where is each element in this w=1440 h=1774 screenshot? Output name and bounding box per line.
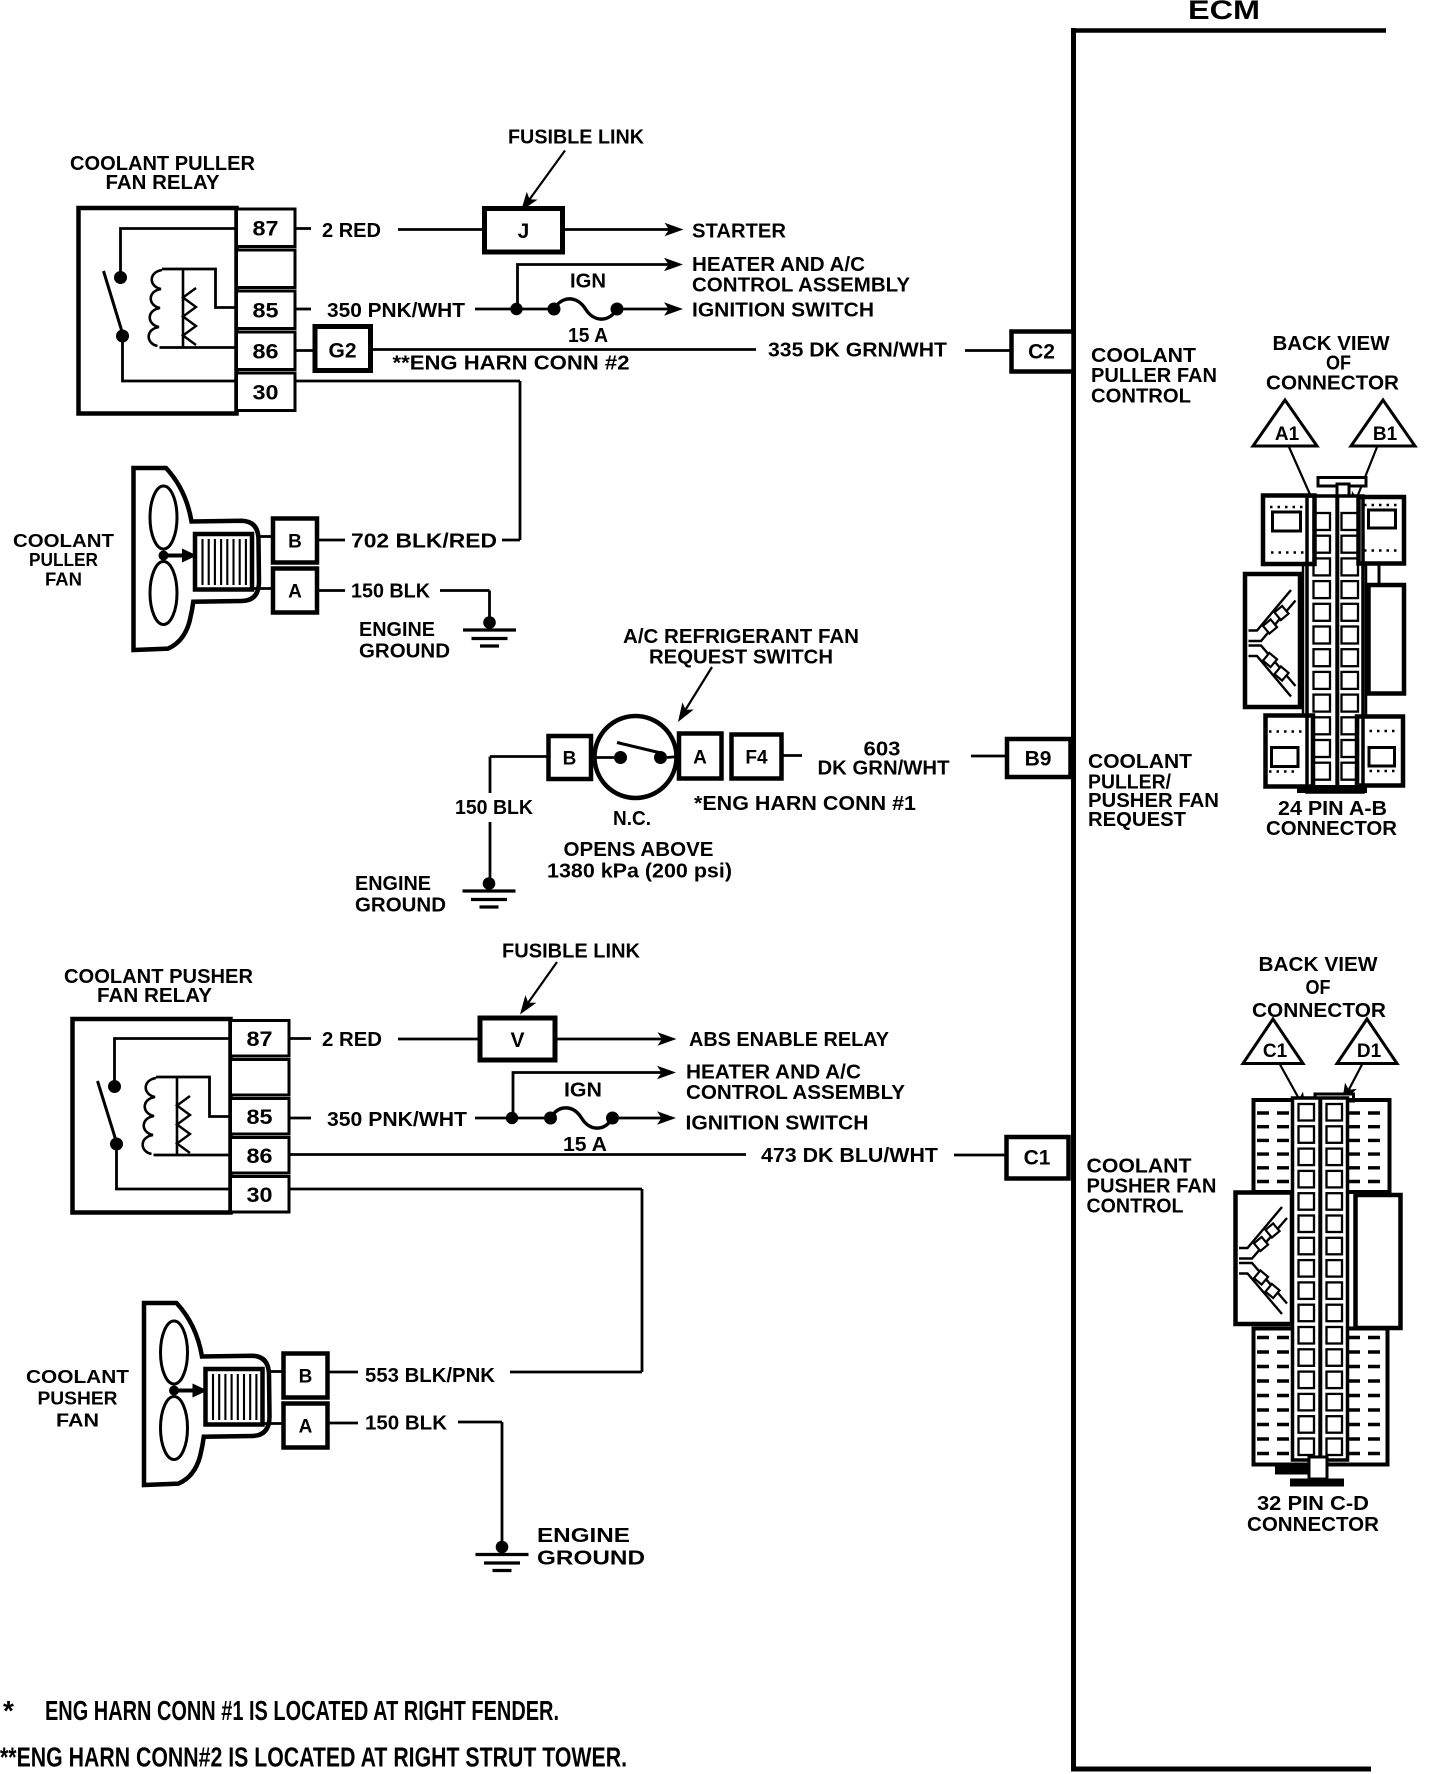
wire 350 PNK/WHT to junction: [475, 308, 517, 311]
svg-text:*ENG HARN CONN #1: *ENG HARN CONN #1: [694, 792, 916, 815]
svg-text:ENGINE: ENGINE: [359, 618, 435, 641]
svg-text:V: V: [510, 1029, 524, 1052]
leader arrow C1 to connector: [1280, 1065, 1303, 1107]
wire fuse to IGNITION SWITCH: [624, 308, 672, 311]
svg-text:B: B: [563, 749, 577, 770]
32 pin connector bottom block with seal lines: [1254, 1329, 1388, 1465]
svg-text:B: B: [288, 532, 302, 553]
svg-text:COOLANT: COOLANT: [26, 1366, 130, 1387]
fuse IGN 15 A (K2): [512, 1117, 544, 1120]
svg-text:REQUEST SWITCH: REQUEST SWITCH: [649, 646, 833, 669]
32 pin cavity row 7: [1299, 1238, 1315, 1255]
relay K1 pin 87 box: [237, 209, 296, 247]
wire switch B to ground: [490, 755, 549, 758]
leader arrow D1 to connector: [1345, 1065, 1362, 1098]
engine ground symbol (switch): [463, 877, 516, 907]
connector G2: [315, 327, 371, 371]
24 pin connector right rail: [1365, 565, 1368, 716]
svg-text:IGN: IGN: [564, 1079, 602, 1102]
relay K1 coil: [162, 269, 238, 308]
relay K1 switch contact blade: [104, 271, 122, 330]
svg-text:C2: C2: [1028, 341, 1055, 364]
wire 2 RED from K2 pin 87: [289, 1037, 311, 1040]
wire K1 pin 30 to coolant puller fan terminal B: [295, 380, 520, 383]
svg-text:A1: A1: [1275, 424, 1300, 445]
32 pin connector top block with seal lines: [1254, 1100, 1390, 1192]
wire 350 PNK/WHT from K2 pin 85: [289, 1117, 311, 1120]
relay K2 pin 85 box: [231, 1099, 290, 1135]
svg-text:150 BLK: 150 BLK: [365, 1412, 447, 1435]
relay K2 pin 86 box: [231, 1138, 290, 1174]
svg-text:IGNITION SWITCH: IGNITION SWITCH: [686, 1112, 869, 1135]
24 pin cavity row 6: [1314, 627, 1331, 644]
svg-text:A: A: [288, 582, 302, 603]
svg-text:CONNECTOR: CONNECTOR: [1266, 372, 1399, 395]
wire K2 pin 30 to coolant pusher fan terminal B: [289, 1188, 642, 1191]
svg-text:CONTROL ASSEMBLY: CONTROL ASSEMBLY: [686, 1081, 905, 1104]
pin id triangle D1: [1337, 1019, 1397, 1064]
24 pin cavity row 5: [1314, 604, 1331, 621]
24 pin cavity row 2: [1314, 536, 1331, 553]
relay K2 pin 87 box: [231, 1021, 290, 1057]
terminal B box (fan): [273, 519, 317, 563]
svg-text:F4: F4: [745, 748, 768, 769]
24 pin cavity row 1: [1314, 513, 1331, 530]
svg-text:PUSHER: PUSHER: [38, 1388, 118, 1409]
svg-text:CONTROL: CONTROL: [1091, 385, 1191, 408]
32 pin cavity row 11: [1299, 1327, 1315, 1344]
wire K1 switch to pin 87: [121, 229, 239, 278]
32 pin connector top tab: [1315, 1094, 1354, 1101]
wire fuse to IGNITION SWITCH (K2): [619, 1117, 664, 1120]
coolant pusher fan motor assembly: [144, 1303, 328, 1485]
svg-text:A: A: [693, 748, 707, 769]
24 pin connector right top block: [1359, 497, 1405, 564]
svg-text:553 BLK/PNK: 553 BLK/PNK: [365, 1364, 495, 1387]
wire K1 switch to pin 30: [123, 336, 239, 381]
wire 150 BLK from fan A: [317, 589, 345, 592]
svg-text:CONTROL ASSEMBLY: CONTROL ASSEMBLY: [692, 274, 910, 297]
svg-text:ECM: ECM: [1188, 0, 1260, 25]
32 pin cavity row 10: [1299, 1305, 1315, 1322]
wire junction to heater riser: [518, 265, 672, 310]
32 pin cavity row 15: [1299, 1416, 1315, 1433]
wire K2 pin 86 473 DK BLU/WHT: [289, 1153, 746, 1156]
svg-text:473 DK BLU/WHT: 473 DK BLU/WHT: [761, 1144, 938, 1167]
svg-text:CONNECTOR: CONNECTOR: [1247, 1513, 1379, 1536]
svg-text:86: 86: [253, 341, 279, 364]
24 pin connector bottom tab: [1297, 785, 1367, 793]
leader arrow FUSIBLE LINK to J: [524, 151, 565, 208]
svg-text:FUSIBLE LINK: FUSIBLE LINK: [508, 126, 644, 149]
pin id triangle B1: [1351, 400, 1415, 446]
svg-text:87: 87: [253, 218, 279, 241]
svg-text:GROUND: GROUND: [359, 640, 450, 663]
wire 2 RED from K1 pin 87: [295, 227, 311, 230]
svg-text:N.C.: N.C.: [613, 807, 651, 830]
junction dot at fuse: [510, 303, 522, 315]
24 pin cavity row 4: [1314, 581, 1331, 598]
coolant puller fan motor assembly: [134, 468, 318, 650]
24 pin connector central pin carrier: [1307, 496, 1363, 792]
32 pin cavity row 4: [1299, 1171, 1315, 1188]
svg-text:ENGINE: ENGINE: [537, 1524, 630, 1547]
svg-text:FAN RELAY: FAN RELAY: [97, 984, 212, 1007]
svg-text:GROUND: GROUND: [355, 894, 446, 917]
svg-text:150 BLK: 150 BLK: [455, 796, 533, 819]
svg-text:1380 kPa (200 psi): 1380 kPa (200 psi): [547, 860, 732, 883]
svg-text:FUSIBLE LINK: FUSIBLE LINK: [502, 940, 640, 963]
relay K1 pin 86 box: [237, 332, 296, 370]
wire 553 BLK/PNK from fan B: [328, 1371, 359, 1374]
svg-text:OF: OF: [1306, 976, 1331, 999]
svg-text:CONTROL: CONTROL: [1087, 1195, 1184, 1218]
svg-text:ABS ENABLE RELAY: ABS ENABLE RELAY: [689, 1028, 889, 1051]
svg-text:2 RED: 2 RED: [322, 1028, 382, 1051]
ECM boundary box top edge: [1071, 28, 1386, 33]
wire 350 PNK/WHT from K1 pin 85: [295, 308, 311, 311]
relay K2 coolant pusher fan relay outline: [73, 1019, 231, 1213]
leader arrow to switch: [681, 667, 712, 717]
svg-text:CONNECTOR: CONNECTOR: [1266, 817, 1397, 840]
svg-text:**ENG HARN CONN#2 IS LOCATED A: **ENG HARN CONN#2 IS LOCATED AT RIGHT ST…: [0, 1742, 627, 1773]
svg-text:30: 30: [247, 1184, 273, 1207]
wire 335 DK GRN/WHT: [371, 348, 757, 351]
svg-text:150 BLK: 150 BLK: [351, 580, 430, 603]
svg-text:335 DK GRN/WHT: 335 DK GRN/WHT: [768, 339, 947, 362]
svg-text:BACK VIEW: BACK VIEW: [1259, 953, 1379, 976]
24 pin cavity row 12: [1314, 763, 1331, 780]
svg-text:GROUND: GROUND: [537, 1547, 645, 1570]
ECM boundary box bottom edge: [1071, 1767, 1371, 1772]
32 pin connector bottom tab: [1275, 1465, 1309, 1475]
svg-text:OPENS ABOVE: OPENS ABOVE: [564, 838, 714, 861]
svg-text:*: *: [3, 1695, 14, 1726]
svg-text:87: 87: [247, 1028, 273, 1051]
svg-text:FAN: FAN: [45, 569, 82, 590]
relay K2 switch contact dots: [108, 1080, 121, 1093]
32 pin connector central pin carrier: [1293, 1098, 1348, 1460]
svg-text:PULLER: PULLER: [29, 549, 98, 570]
32 pin connector left middle block with key hatch: [1236, 1193, 1293, 1325]
fusible link V: [480, 1018, 555, 1060]
32 pin cavity row 3: [1299, 1149, 1315, 1166]
svg-text:85: 85: [247, 1106, 273, 1129]
wire 603 DK GRN/WHT to B9: [782, 754, 803, 757]
ECM terminal C2: [1012, 332, 1074, 372]
switch S1 contacts: [591, 756, 614, 759]
ECM terminal B9: [1007, 739, 1071, 777]
pin id triangle C1: [1243, 1019, 1303, 1064]
32 pin cavity row 1: [1299, 1104, 1315, 1121]
svg-text:DK GRN/WHT: DK GRN/WHT: [818, 757, 950, 780]
32 pin cavity row 2: [1299, 1126, 1315, 1143]
32 pin cavity row 14: [1299, 1394, 1315, 1411]
wire 2 RED to fusible link J: [398, 228, 485, 231]
wire K2 switch to pin 30: [117, 1144, 233, 1189]
24 pin connector top tab: [1318, 478, 1366, 487]
svg-text:702 BLK/RED: 702 BLK/RED: [351, 530, 497, 553]
24 pin cavity row 8: [1314, 672, 1331, 689]
relay K1 coolant puller fan relay outline: [79, 208, 237, 414]
svg-text:COOLANT: COOLANT: [13, 530, 115, 551]
svg-text:15 A: 15 A: [563, 1133, 607, 1156]
wire J to STARTER: [563, 228, 672, 231]
svg-text:2 RED: 2 RED: [322, 219, 381, 242]
svg-text:J: J: [518, 220, 530, 243]
svg-text:G2: G2: [328, 340, 356, 363]
wire K1 pin 86 to connector G2: [295, 349, 315, 352]
svg-text:86: 86: [247, 1145, 273, 1168]
relay K2 coil: [156, 1077, 232, 1117]
relay K1 pin blank box: [237, 250, 296, 288]
svg-text:REQUEST: REQUEST: [1088, 808, 1186, 831]
svg-text:30: 30: [253, 382, 279, 405]
32 pin cavity row 8: [1299, 1260, 1315, 1277]
24 pin connector right middle block: [1369, 585, 1405, 694]
32 pin cavity row 13: [1299, 1372, 1315, 1389]
svg-text:FAN RELAY: FAN RELAY: [106, 171, 220, 194]
ECM boundary box left edge: [1071, 28, 1076, 1772]
engine ground symbol (puller fan): [463, 616, 516, 646]
32 pin cavity row 5: [1299, 1193, 1315, 1210]
svg-text:C1: C1: [1024, 1147, 1051, 1170]
terminal A box (switch): [679, 734, 722, 779]
svg-text:B1: B1: [1373, 424, 1398, 445]
connector F4: [732, 735, 782, 779]
pin id triangle A1: [1253, 400, 1317, 446]
wire K2 switch to pin 87: [115, 1039, 233, 1087]
wire junction to heater riser (K2): [513, 1073, 664, 1119]
relay K1 pin 85 box: [237, 291, 296, 329]
svg-text:85: 85: [253, 300, 279, 323]
leader arrow B1 to connector: [1354, 447, 1377, 505]
24 pin cavity row 3: [1314, 558, 1331, 575]
svg-text:15 A: 15 A: [568, 324, 608, 347]
svg-text:ENGINE: ENGINE: [355, 872, 431, 895]
svg-text:B9: B9: [1025, 748, 1052, 771]
24 pin connector left top block: [1263, 496, 1315, 565]
24 pin cavity row 7: [1314, 649, 1331, 666]
24 pin cavity row 11: [1314, 740, 1331, 757]
24 pin connector right bottom block: [1357, 717, 1403, 786]
24 pin connector left rail: [1302, 565, 1305, 716]
svg-text:**ENG HARN CONN #2: **ENG HARN CONN #2: [393, 352, 630, 375]
svg-text:350 PNK/WHT: 350 PNK/WHT: [327, 1108, 467, 1131]
24 pin connector left middle block with key hatch: [1245, 574, 1300, 707]
svg-text:C1: C1: [1263, 1041, 1288, 1062]
wire 702 BLK/RED: [317, 539, 345, 542]
ECM terminal C1: [1007, 1137, 1069, 1179]
svg-text:ENG HARN CONN #1 IS LOCATED AT: ENG HARN CONN #1 IS LOCATED AT RIGHT FEN…: [45, 1695, 559, 1726]
32 pin connector right middle block: [1356, 1195, 1401, 1328]
32 pin cavity row 16: [1299, 1439, 1315, 1456]
leader arrow A1 to connector: [1289, 447, 1316, 508]
svg-text:IGN: IGN: [570, 270, 606, 293]
svg-text:IGNITION SWITCH: IGNITION SWITCH: [692, 299, 874, 322]
svg-text:D1: D1: [1357, 1041, 1382, 1062]
24 pin cavity row 10: [1314, 717, 1331, 734]
fusible link J: [485, 209, 563, 253]
svg-text:32 PIN C-D: 32 PIN C-D: [1257, 1492, 1369, 1515]
32 pin cavity row 9: [1299, 1282, 1315, 1299]
fuse IGN 15 A: [517, 308, 549, 311]
relay K2 pin 30 box: [231, 1177, 290, 1213]
svg-text:FAN: FAN: [56, 1410, 99, 1431]
svg-text:STARTER: STARTER: [692, 220, 786, 243]
relay K1 switch contact dots: [114, 271, 127, 284]
svg-text:350 PNK/WHT: 350 PNK/WHT: [327, 299, 465, 322]
wire 150 BLK from fan A: [328, 1422, 359, 1425]
terminal B box (switch): [549, 736, 592, 779]
terminal A box (fan): [273, 569, 317, 613]
32 pin cavity row 12: [1299, 1349, 1315, 1366]
pressure switch S1 circle: [595, 716, 677, 798]
24 pin connector left bottom block: [1266, 716, 1314, 787]
relay K1 pin 30 box: [237, 373, 296, 411]
junction dot at fuse (K2): [506, 1112, 518, 1124]
relay K2 pin blank box: [231, 1060, 290, 1096]
engine ground symbol (pusher fan): [476, 1541, 529, 1571]
relay K2 switch contact blade: [98, 1081, 116, 1139]
32 pin cavity row 6: [1299, 1216, 1315, 1233]
24 pin cavity row 9: [1314, 695, 1331, 712]
switch S1 blade: [617, 743, 663, 754]
wire V to ABS ENABLE RELAY: [555, 1038, 664, 1041]
leader arrow FUSIBLE LINK to V: [523, 962, 557, 1010]
